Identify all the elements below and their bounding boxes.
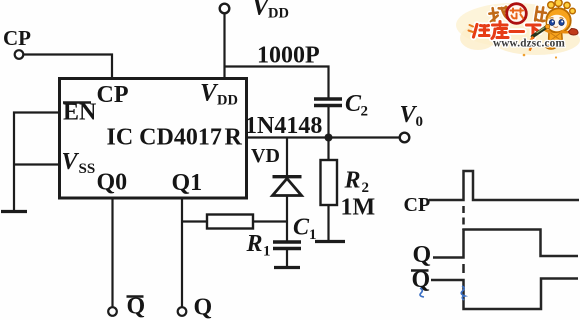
svg-text:CP: CP bbox=[97, 82, 129, 108]
capacitor C1 bbox=[273, 242, 301, 249]
svg-text:2: 2 bbox=[361, 104, 369, 120]
mascot head bbox=[546, 8, 570, 32]
mascot pen swoosh bbox=[529, 37, 533, 51]
wire VDD terminal down to IC VDD pin bbox=[223, 14, 225, 79]
logo two dashes bbox=[469, 25, 474, 32]
waveform CP trace bbox=[429, 171, 579, 200]
node VDD supply terminal bbox=[220, 4, 230, 14]
waveform Qbar trace bbox=[431, 279, 578, 310]
svg-text:1: 1 bbox=[263, 244, 271, 260]
wire VDD branch to C2 bbox=[225, 67, 329, 99]
svg-text:IC CD4017: IC CD4017 bbox=[107, 125, 222, 151]
svg-text:R: R bbox=[225, 125, 243, 151]
dash-dot alignment line upper bbox=[462, 206, 465, 230]
ground left bbox=[1, 210, 27, 213]
dash-dot alignment line middle bbox=[462, 264, 465, 277]
wire C2 to output node bbox=[327, 106, 329, 138]
resistor R1 bbox=[207, 215, 253, 229]
logo speck bbox=[523, 54, 526, 57]
node Qbar output terminal bbox=[108, 307, 117, 316]
svg-text:CP: CP bbox=[3, 26, 31, 50]
svg-text:C: C bbox=[293, 215, 310, 241]
svg-text:R: R bbox=[344, 168, 361, 194]
svg-text:Q1: Q1 bbox=[172, 170, 203, 196]
label VDD supply bbox=[252, 0, 289, 22]
svg-text:VD: VD bbox=[251, 145, 280, 167]
svg-text:1N4148: 1N4148 bbox=[245, 113, 322, 139]
wire C1 to ground bbox=[286, 249, 288, 267]
svg-text:Q0: Q0 bbox=[97, 170, 128, 196]
svg-text:Q: Q bbox=[413, 242, 432, 268]
node V0 output terminal bbox=[400, 133, 410, 143]
ground below R2 bbox=[315, 240, 345, 243]
mascot crown bbox=[548, 0, 576, 14]
label R2 bbox=[344, 168, 370, 197]
node CP input terminal bbox=[15, 50, 24, 59]
logo glyph pian bbox=[535, 6, 547, 23]
wire EN to VSS to ground bbox=[14, 113, 60, 212]
wire IC R pin to output terminal bbox=[247, 136, 400, 138]
mascot body bbox=[549, 31, 563, 46]
mascot right leg and boot bbox=[562, 31, 573, 34]
ground below C1 bbox=[274, 266, 300, 269]
svg-text:C: C bbox=[345, 91, 362, 117]
logo circle xin bbox=[507, 4, 527, 24]
junction node output bbox=[325, 134, 333, 142]
svg-text:SS: SS bbox=[79, 161, 96, 177]
svg-text:www.dzsc.com: www.dzsc.com bbox=[493, 38, 565, 50]
svg-text:Q: Q bbox=[194, 295, 213, 320]
node Q output terminal bbox=[178, 307, 187, 316]
diode VD 1N4148 bbox=[273, 138, 302, 242]
pin label VDD (inside IC) bbox=[200, 80, 238, 109]
svg-text:DD: DD bbox=[217, 93, 238, 109]
svg-text:V: V bbox=[62, 149, 80, 175]
label Qbar bbox=[127, 294, 146, 320]
blue pen mark left bbox=[420, 288, 424, 297]
svg-text:1000P: 1000P bbox=[257, 43, 320, 69]
svg-text:R: R bbox=[246, 231, 263, 257]
label C1 bbox=[293, 215, 317, 244]
svg-text:0: 0 bbox=[416, 114, 424, 130]
svg-text:CP: CP bbox=[404, 194, 431, 216]
capacitor C2 bbox=[314, 99, 342, 106]
waveform Qbar label bbox=[411, 267, 430, 293]
pin label VSS (inside IC) bbox=[62, 149, 96, 177]
svg-text:DD: DD bbox=[268, 6, 289, 22]
wire Q1 to R1 bbox=[182, 220, 207, 222]
mascot arm and pen bbox=[544, 29, 550, 32]
wire CP input to IC CP pin bbox=[24, 55, 113, 79]
blue pen mark right bbox=[461, 286, 465, 300]
logo text weikuyixia bbox=[474, 22, 541, 39]
mascot eyes bbox=[549, 20, 554, 26]
svg-text:1M: 1M bbox=[341, 195, 376, 221]
logo glyph zhao bbox=[489, 6, 510, 22]
wire Q1 pin down bbox=[181, 198, 183, 307]
IC U1 CD4017 box bbox=[60, 79, 247, 199]
resistor R2 bbox=[321, 141, 338, 240]
watermark logo dzsc bbox=[456, 0, 580, 59]
wire Q0 pin down bbox=[111, 198, 113, 307]
waveform Q trace bbox=[433, 230, 578, 258]
label R1 bbox=[246, 231, 271, 260]
wire R1 to diode node bbox=[253, 220, 287, 222]
label C2 bbox=[345, 91, 368, 120]
mascot left boot bbox=[545, 42, 556, 49]
label V0 bbox=[400, 102, 424, 130]
pin label EN (inside IC, overline) bbox=[63, 100, 97, 126]
